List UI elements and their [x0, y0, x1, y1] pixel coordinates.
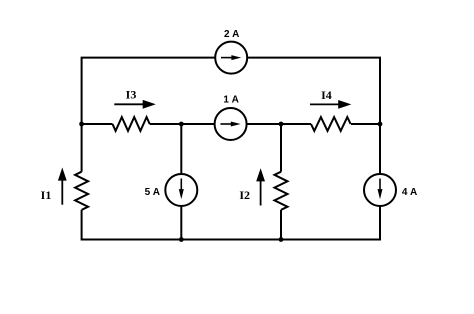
- resistor R4 (I4 branch): [311, 117, 351, 131]
- svg-text:A: A: [410, 187, 417, 198]
- wire branch below I2 resistor: [280, 210, 282, 240]
- current arrow I3: [114, 100, 156, 109]
- wire branch above I2 resistor: [280, 124, 282, 172]
- current source 2A arrow: [221, 55, 241, 60]
- resistor R2 (I2 branch): [275, 172, 288, 210]
- svg-text:2: 2: [224, 29, 230, 40]
- wire top right with top-right corner: [247, 58, 380, 174]
- wire branch below 5A source: [180, 206, 182, 239]
- wire middle between R3 and 1A source: [150, 123, 215, 125]
- wire middle left: [82, 123, 113, 125]
- current source 4A circle: [364, 174, 396, 206]
- svg-text:5: 5: [145, 187, 151, 198]
- resistor R3 (I3 branch): [113, 117, 150, 131]
- current source 1A circle: [215, 108, 247, 140]
- svg-text:I2: I2: [239, 188, 250, 202]
- svg-text:1: 1: [223, 95, 229, 106]
- current source 5A arrow: [179, 179, 184, 200]
- svg-text:I4: I4: [321, 88, 332, 102]
- junction node bottom wire / 5A branch: [179, 237, 184, 242]
- junction node middle wire / 5A branch: [179, 122, 184, 127]
- resistor R1 (I1 branch): [75, 172, 88, 210]
- svg-text:I3: I3: [126, 87, 137, 101]
- junction node bottom wire / I2 branch: [279, 237, 284, 242]
- svg-text:A: A: [153, 187, 160, 198]
- wire bottom with bottom corners: [82, 206, 380, 239]
- wire branch above 5A source: [180, 124, 182, 174]
- current source 4A arrow: [378, 179, 383, 200]
- svg-text:A: A: [232, 29, 239, 40]
- current arrow I1: [58, 168, 67, 205]
- wire middle right: [351, 123, 380, 125]
- current source 1A arrow: [220, 122, 240, 127]
- svg-text:4: 4: [402, 187, 408, 198]
- svg-text:I1: I1: [41, 188, 52, 202]
- current arrow I2: [256, 168, 265, 205]
- junction node middle wire / I2 branch: [279, 122, 284, 127]
- junction node at left of middle wire: [79, 122, 84, 127]
- current arrow I4: [310, 100, 351, 109]
- junction node at right of middle wire: [378, 122, 383, 127]
- current source 2A circle: [215, 42, 247, 74]
- wire left side with top-left corner: [82, 58, 216, 172]
- wire middle between 1A source and R4: [247, 123, 311, 125]
- svg-text:A: A: [232, 95, 239, 106]
- current source 5A circle: [165, 174, 197, 206]
